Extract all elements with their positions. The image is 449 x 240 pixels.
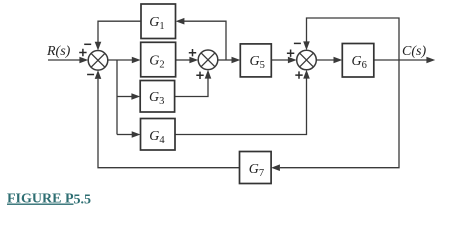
wire G1 output to S1 top input — [95, 21, 141, 50]
sign - at S1 top input — [84, 43, 91, 45]
wire takeoff up to G1 input — [176, 18, 226, 60]
sign - at S1 bottom input — [87, 74, 94, 76]
summing junction S1 — [88, 51, 108, 71]
sign + at S2 left input — [189, 49, 196, 56]
sign + at S3 left input — [287, 50, 294, 57]
block G2 — [141, 42, 176, 77]
wire takeoff down from S1 output to G3/G4 — [116, 60, 118, 135]
wire G7 output to S1 bottom input — [95, 70, 240, 168]
block G3 — [140, 81, 174, 113]
wire G6 to C(s) output — [374, 57, 435, 64]
svg-text:C(s): C(s) — [402, 44, 426, 59]
wire branch to G3 — [117, 93, 140, 100]
wire G2 to summer S2 — [176, 57, 199, 64]
block G7 — [240, 152, 272, 184]
block G1 — [141, 4, 176, 39]
sign + at S3 bottom input — [295, 71, 302, 78]
sign - at S3 top input — [294, 42, 301, 44]
summing junction S2 — [198, 50, 218, 70]
sign + at S2 bottom input — [196, 72, 203, 79]
wire S3 to G6 — [316, 57, 342, 64]
svg-text:FIGURE P5.5: FIGURE P5.5 — [7, 192, 91, 208]
wire S1 to G2 — [108, 57, 141, 64]
block G5 — [240, 44, 271, 77]
wire S2 to G5 — [218, 57, 241, 64]
wire branch to G4 — [117, 131, 141, 138]
block G6 — [342, 44, 374, 78]
wire G6 output feedback to S3 top input — [303, 18, 399, 60]
wire output takeoff down to G7 input — [271, 60, 399, 171]
wire G5 to summer S3 — [271, 57, 296, 64]
block G4 — [141, 119, 176, 151]
sign + at S1 left input — [79, 49, 86, 56]
wire G4 to S3 bottom input — [175, 70, 310, 135]
svg-text:R(s): R(s) — [46, 44, 71, 59]
wire G3 to S2 bottom input — [175, 70, 212, 97]
wire R(s) input to summer S1 — [48, 57, 88, 64]
summing junction S3 — [297, 50, 317, 70]
